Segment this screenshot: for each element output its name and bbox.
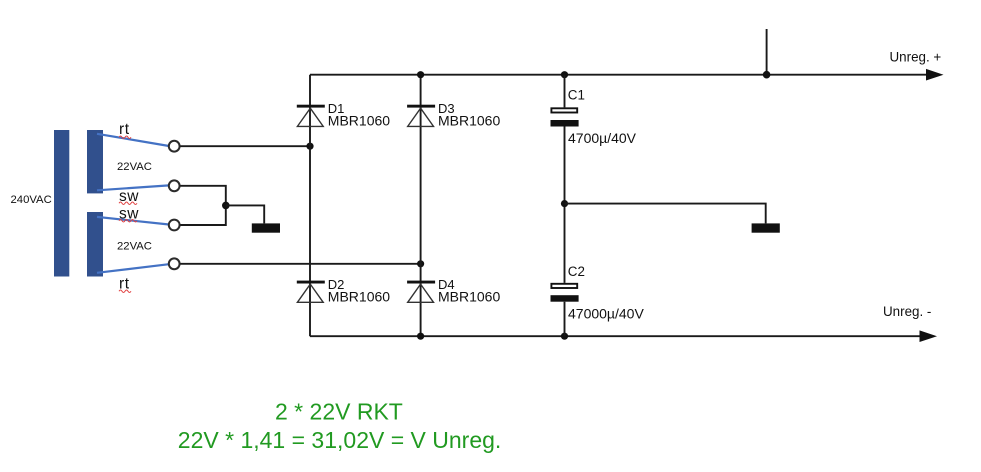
diode D3 cathode bar: [407, 105, 435, 108]
capacitor C2 bottom plate: [551, 295, 579, 302]
wire middle column D3 D4: [420, 75, 422, 337]
wire center tap to ground: [226, 205, 264, 223]
diode D1 triangle: [297, 108, 323, 126]
capacitor C1 bottom plate: [551, 120, 579, 127]
diode D1 cathode bar: [297, 105, 325, 108]
diode D2 triangle: [297, 284, 323, 302]
node junction at D1 anode: [306, 143, 313, 150]
arrow head Unreg minus: [920, 330, 938, 342]
wire left column D1 D2: [309, 75, 311, 337]
wire cap midpoint to ground: [565, 204, 766, 224]
ground symbol center tap: [252, 223, 280, 232]
wire secondary lead rt bottom: [97, 264, 169, 273]
svg-text:Unreg. +: Unreg. +: [890, 50, 942, 65]
diode D4 cathode bar: [407, 281, 435, 284]
node junction center tap: [222, 202, 230, 210]
wire secondary lead sw upper: [97, 185, 169, 190]
wire top secondary terminal to D1 node: [181, 145, 311, 147]
ground symbol output: [752, 223, 780, 232]
diode D3 triangle: [408, 108, 434, 126]
svg-text:MBR1060: MBR1060: [438, 113, 500, 129]
svg-text:MBR1060: MBR1060: [328, 288, 390, 304]
svg-text:22VAC: 22VAC: [117, 161, 152, 173]
wire sw upper terminal right: [181, 186, 226, 225]
wire bottom secondary terminal to D4 node: [181, 263, 421, 265]
node junction bottom rail at D4: [417, 333, 424, 340]
terminal circle sw upper: [169, 180, 180, 191]
spellcheck squiggle under sw lower: [119, 220, 137, 223]
svg-text:sw: sw: [119, 205, 139, 222]
svg-text:22V * 1,41 = 31,02V = V Unreg.: 22V * 1,41 = 31,02V = V Unreg.: [178, 427, 502, 453]
svg-text:Unreg. -: Unreg. -: [883, 304, 931, 319]
svg-text:C2: C2: [568, 264, 585, 279]
diode D2 cathode bar: [297, 281, 325, 284]
capacitor C2 top plate: [551, 284, 577, 288]
diode D4 triangle: [408, 284, 434, 302]
svg-text:C1: C1: [568, 87, 585, 102]
spellcheck squiggle under rt bottom: [119, 290, 131, 293]
svg-text:240VAC: 240VAC: [11, 194, 52, 206]
wire bottom rail: [310, 335, 920, 337]
node junction cap midpoint: [561, 200, 568, 207]
svg-text:MBR1060: MBR1060: [328, 113, 390, 129]
transformer T1 secondary winding bar upper: [87, 130, 103, 193]
terminal circle rt bottom: [169, 258, 180, 269]
svg-text:2 * 22V RKT: 2 * 22V RKT: [275, 398, 403, 424]
transformer T1 secondary winding bar lower: [87, 212, 103, 277]
svg-text:MBR1060: MBR1060: [438, 288, 500, 304]
arrow head Unreg plus: [926, 69, 944, 81]
wire top rail: [310, 74, 927, 76]
wire output stub top right: [766, 29, 768, 75]
node junction at D4 anode: [417, 260, 424, 267]
node junction top rail at C1: [561, 71, 568, 78]
svg-text:sw: sw: [119, 188, 139, 205]
svg-text:47000µ/40V: 47000µ/40V: [568, 305, 644, 321]
terminal circle rt top: [169, 141, 180, 152]
node junction bottom rail at C2: [561, 333, 568, 340]
spellcheck squiggle under sw upper: [119, 202, 137, 205]
transformer T1 primary winding bar: [54, 130, 69, 277]
wire C2 to bottom rail: [564, 302, 566, 337]
spellcheck squiggle under rt top: [119, 136, 131, 139]
capacitor C1 top plate: [551, 108, 577, 112]
node junction top rail at D3: [417, 71, 424, 78]
svg-text:4700µ/40V: 4700µ/40V: [568, 130, 637, 146]
terminal circle sw lower: [169, 220, 180, 231]
node junction top rail at stub: [763, 71, 771, 79]
wire secondary lead sw lower: [97, 217, 169, 225]
wire secondary lead rt top: [97, 134, 169, 146]
svg-text:22VAC: 22VAC: [117, 241, 152, 253]
wire C1 C2 column segment top: [564, 75, 566, 108]
wire C1 to C2 segment: [564, 127, 566, 283]
